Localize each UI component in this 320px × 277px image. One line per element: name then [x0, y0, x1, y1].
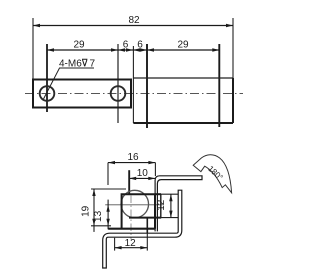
svg-text:16: 16 — [127, 152, 139, 163]
right tapped hole — [111, 86, 126, 101]
dimension line row 29/6/6/29 — [47, 48, 219, 51]
tick 12-right bottom — [156, 217, 179, 219]
dim text 16 — [127, 152, 139, 163]
svg-text:19: 19 — [81, 205, 92, 217]
dimension line 16 — [108, 161, 155, 164]
dimension line 13 / extension 16 left — [106, 163, 109, 230]
mounting plate outline — [33, 80, 131, 108]
dim text 13 (rotated) — [93, 210, 104, 222]
leader note 4-M6 depth 7 — [44, 59, 96, 100]
extension line 12 bottom left — [114, 238, 116, 251]
lug edge / extension 12 right — [146, 218, 148, 251]
extension / body feature line — [146, 44, 148, 128]
svg-text:13: 13 — [93, 210, 104, 222]
dimension line 10 — [129, 177, 155, 180]
extension line right of 82 dim — [232, 18, 234, 78]
dim text 12 bottom — [125, 238, 137, 249]
centerline through holes and body — [25, 93, 243, 95]
foot bracket Z-bent plate — [103, 190, 182, 268]
dim text 19 (rotated) — [81, 205, 92, 217]
inner step bottom edge — [129, 217, 161, 219]
dimension line 82 — [33, 24, 233, 27]
body bottom edge — [133, 122, 233, 124]
svg-text:12: 12 — [125, 238, 137, 249]
body top edge — [133, 77, 233, 79]
svg-text:82: 82 — [128, 15, 140, 26]
dimension line 12 bottom — [115, 246, 148, 249]
step right edge — [160, 194, 162, 217]
extension / body step line — [218, 44, 220, 127]
dim text 82 — [128, 15, 140, 26]
extension / body left edge line — [132, 46, 134, 123]
dim text 29 left — [73, 40, 85, 51]
block square outline — [122, 194, 155, 229]
horizontal centerline of bore — [105, 204, 162, 206]
dim text 10 — [137, 168, 149, 179]
dimension line 12 right — [169, 194, 172, 217]
flipped bracket plate with top arm — [155, 176, 202, 232]
tick 12-right top — [161, 193, 178, 195]
extension line at right hole — [117, 44, 119, 123]
dimension line 19 — [92, 189, 95, 232]
dim text 6 first — [123, 40, 129, 51]
rotation arrow 180 deg — [193, 155, 231, 193]
dim text 6 second — [137, 40, 143, 51]
extension line at left hole (29 dim left) — [46, 44, 48, 112]
extension line left of 82 dim — [32, 18, 34, 79]
svg-text:29: 29 — [177, 40, 189, 51]
block bottom edge (full face width) — [108, 228, 155, 230]
rotation arrow text 180deg — [206, 164, 224, 182]
extension line 19/13 bottom — [91, 225, 111, 227]
extension line 19 top — [91, 188, 126, 190]
bore circle — [121, 190, 149, 218]
extension line 10 left (thick) — [128, 170, 130, 194]
svg-text:10: 10 — [137, 168, 149, 179]
dim text 29 right — [177, 40, 189, 51]
left tapped hole — [40, 86, 55, 101]
svg-text:6: 6 — [123, 40, 129, 51]
dim text 12 right (rotated) — [156, 199, 167, 211]
body right edge — [232, 78, 234, 123]
block top edge extended right — [155, 193, 161, 195]
svg-text:6: 6 — [137, 40, 143, 51]
svg-text:29: 29 — [73, 40, 85, 51]
vertical centerline of foot holes — [130, 196, 132, 240]
extension line 16 right / 10 right — [154, 163, 156, 176]
